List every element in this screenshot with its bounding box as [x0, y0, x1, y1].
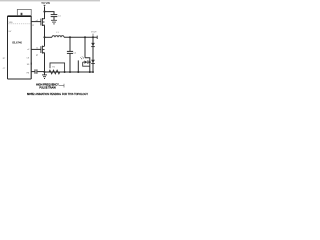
opto LED D3: [84, 61, 87, 64]
ground rail: [45, 71, 94, 73]
bypass wire over R1: [50, 63, 65, 72]
ground G2: [44, 72, 46, 75]
wire SW to L1: [45, 36, 53, 38]
node I junction: [92, 71, 94, 73]
svg-text:PULSE TRAIN: PULSE TRAIN: [39, 86, 56, 89]
wire L1 to output: [64, 36, 97, 38]
annotation leader: [59, 85, 64, 87]
svg-text:o1: o1: [36, 20, 38, 22]
node G junction: [77, 71, 79, 73]
top toolbar hairline: [0, 0, 100, 1]
transistor Q2: [41, 46, 45, 54]
resistor R1: [48, 70, 61, 74]
svg-text:12: 12: [32, 25, 34, 27]
IC U1 ISL6740 outline: [8, 16, 32, 79]
wire FB pin with series cap C3: [31, 71, 34, 73]
capacitor C2: [69, 37, 71, 51]
node VIN arrow: [43, 5, 45, 7]
node B junction: [69, 36, 71, 38]
capacitor C3: [35, 69, 37, 73]
ground G1: [51, 20, 57, 24]
capacitor C1: [51, 15, 58, 21]
svg-text:VOUT: VOUT: [91, 32, 97, 34]
diode D2: [91, 60, 95, 63]
node SW junction: [43, 36, 45, 38]
diode D1: [91, 43, 95, 46]
wire VIN down: [44, 7, 46, 19]
node D junction: [92, 36, 94, 38]
background: [0, 0, 100, 100]
diode branch: [92, 37, 94, 72]
opto arrows: [80, 56, 84, 59]
wire opto left leg: [77, 60, 79, 72]
svg-text:11: 11: [36, 48, 38, 50]
wire OUT1 gate: [31, 21, 41, 23]
opto lower stub: [83, 62, 90, 66]
wire Q1 source to Q2 drain: [44, 25, 46, 46]
svg-text:NOTE: ANIMATION PENDING FOR TH: NOTE: ANIMATION PENDING FOR THIS TOPOLOG…: [27, 93, 88, 96]
output terminal tick: [96, 36, 98, 39]
inductor L1: [52, 36, 64, 38]
node GND junction: [43, 71, 45, 73]
svg-text:o2: o2: [27, 49, 29, 51]
svg-text:VDD: VDD: [9, 22, 14, 24]
optocoupler U2 branch: [84, 37, 86, 58]
wire to C1: [45, 12, 55, 15]
bootstrap box on IC top: [17, 9, 31, 15]
box tick: [21, 13, 23, 16]
svg-text:ISL6740: ISL6740: [12, 41, 23, 45]
node A junction: [43, 11, 45, 13]
node F junction: [69, 71, 71, 73]
IC inner divider: [8, 23, 30, 25]
wire OUT2 gate: [31, 48, 41, 50]
transistor Q1: [41, 18, 45, 26]
node E junction: [64, 71, 66, 73]
svg-text:g2: g2: [36, 55, 38, 57]
node C junction: [84, 36, 86, 38]
wire Q2 source down: [44, 53, 46, 72]
svg-text:TO VIN: TO VIN: [41, 1, 50, 5]
node opto junction: [89, 61, 91, 63]
node H junction: [89, 71, 91, 73]
